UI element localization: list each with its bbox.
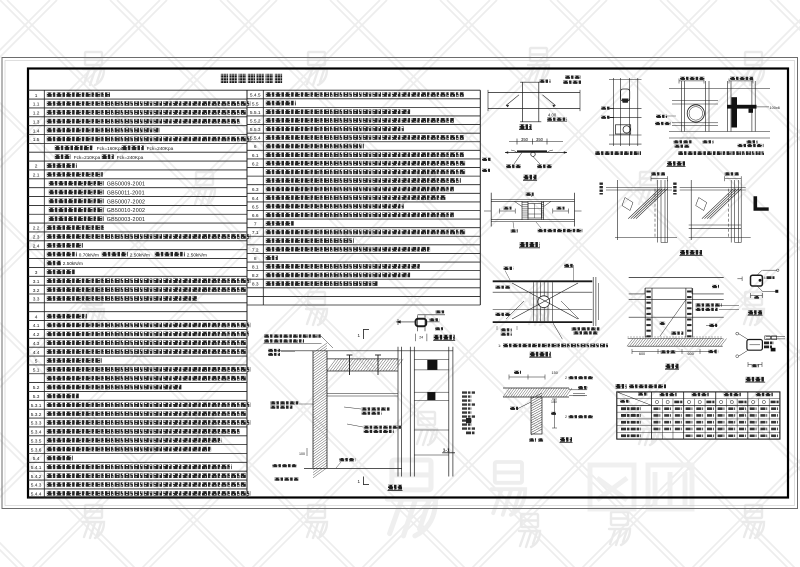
svg-text:1.3: 1.3 bbox=[33, 119, 40, 125]
svg-text:2.4: 2.4 bbox=[33, 244, 40, 250]
figure 5.3.4: slab step detail bbox=[482, 137, 567, 181]
svg-text:1: 1 bbox=[358, 479, 361, 484]
svg-text:6.4: 6.4 bbox=[252, 196, 259, 202]
figure 5.4.2: beam mid-joint elevation bbox=[484, 193, 583, 248]
svg-text:4.1: 4.1 bbox=[33, 323, 40, 329]
svg-text:5.2: 5.2 bbox=[33, 385, 40, 391]
svg-text:350: 350 bbox=[521, 137, 529, 142]
svg-text:6.6: 6.6 bbox=[252, 213, 259, 219]
svg-text:4: 4 bbox=[35, 314, 38, 320]
svg-text:2.3: 2.3 bbox=[33, 235, 40, 241]
figure: constructional column tie detail bbox=[736, 332, 785, 382]
svg-text:5.5.2: 5.5.2 bbox=[250, 119, 261, 125]
inner heavy border bbox=[28, 69, 788, 498]
figure 6.2: parapet & wall section elevation bbox=[264, 329, 454, 490]
svg-text:600: 600 bbox=[688, 352, 694, 356]
svg-text:5.4.4: 5.4.4 bbox=[31, 492, 42, 498]
svg-text:5.4.2: 5.4.2 bbox=[31, 474, 42, 480]
table 6.4: wall top beam reinforcement schedule bbox=[616, 385, 780, 439]
svg-text:3.3: 3.3 bbox=[33, 297, 40, 303]
svg-text:5.5: 5.5 bbox=[252, 101, 259, 107]
svg-text:5.5.4: 5.5.4 bbox=[250, 136, 261, 142]
svg-text:Fck=160Kpa: Fck=160Kpa bbox=[97, 146, 124, 151]
svg-text:3.1: 3.1 bbox=[33, 279, 40, 285]
svg-text:GB50003-2001: GB50003-2001 bbox=[107, 217, 145, 223]
svg-text:2.1: 2.1 bbox=[33, 173, 40, 179]
svg-text:1: 1 bbox=[358, 333, 361, 338]
svg-text:5.1: 5.1 bbox=[33, 368, 40, 374]
svg-text:8: 8 bbox=[254, 256, 257, 262]
svg-text:100x6: 100x6 bbox=[770, 106, 780, 110]
svg-text:1: 1 bbox=[35, 93, 38, 99]
svg-text:5.3.5: 5.3.5 bbox=[31, 438, 42, 444]
svg-text:4.4: 4.4 bbox=[33, 350, 40, 356]
svg-text:6.2: 6.2 bbox=[252, 161, 259, 167]
figure 6.4: basement wall section bbox=[627, 277, 739, 369]
svg-text:5.5.3: 5.5.3 bbox=[250, 127, 261, 133]
left specification table grid bbox=[28, 90, 247, 498]
svg-text:4.2: 4.2 bbox=[33, 332, 40, 338]
figure: tie bar detail (top) bbox=[396, 311, 455, 341]
svg-text:7.1: 7.1 bbox=[252, 230, 259, 236]
svg-text:5.3.2: 5.3.2 bbox=[31, 412, 42, 418]
svg-text:5.3: 5.3 bbox=[33, 394, 40, 400]
outer border frame bbox=[2, 58, 798, 509]
svg-text:5.3.6: 5.3.6 bbox=[31, 447, 42, 453]
svg-text:2: 2 bbox=[565, 376, 567, 380]
svg-text:4.00: 4.00 bbox=[548, 113, 557, 118]
figure 6.3: slab-wall tee detail bbox=[503, 371, 594, 442]
svg-text:1.2: 1.2 bbox=[33, 111, 40, 117]
svg-text:2.50kN/m: 2.50kN/m bbox=[187, 252, 207, 257]
figure 5.4.4: post-cast strip plan bbox=[493, 265, 608, 358]
figure: column tie section detail bbox=[737, 269, 779, 315]
svg-text:5.3.4: 5.3.4 bbox=[31, 430, 42, 436]
svg-text:350: 350 bbox=[536, 137, 544, 142]
svg-text:7: 7 bbox=[254, 222, 257, 228]
svg-text:6: 6 bbox=[254, 144, 257, 150]
figure: slab opening rebar plan bbox=[595, 78, 642, 154]
svg-text:600: 600 bbox=[639, 352, 645, 356]
sheet title 结构设计总说明 (glyph blocks) bbox=[221, 74, 229, 83]
svg-text:1.4: 1.4 bbox=[33, 128, 40, 134]
svg-text:6.3: 6.3 bbox=[252, 187, 259, 193]
svg-text:8.1: 8.1 bbox=[252, 265, 259, 271]
svg-text:GB50010-2002: GB50010-2002 bbox=[107, 208, 145, 214]
svg-text:GB50007-2002: GB50007-2002 bbox=[107, 199, 145, 205]
svg-text:5.3.3: 5.3.3 bbox=[31, 421, 42, 427]
svg-text:1.1: 1.1 bbox=[33, 102, 40, 108]
svg-text:7.2: 7.2 bbox=[252, 247, 259, 253]
svg-text:100: 100 bbox=[299, 452, 305, 456]
svg-text:GB50011-2001: GB50011-2001 bbox=[107, 190, 145, 196]
svg-text:150: 150 bbox=[552, 371, 558, 375]
svg-text:5: 5 bbox=[35, 359, 38, 365]
svg-text:4.3: 4.3 bbox=[33, 341, 40, 347]
svg-text:1.5: 1.5 bbox=[33, 137, 40, 143]
svg-text:150: 150 bbox=[551, 400, 557, 404]
svg-text:3.2: 3.2 bbox=[33, 288, 40, 294]
right table row texts bbox=[250, 93, 466, 288]
svg-text:0.70kN/m: 0.70kN/m bbox=[79, 252, 99, 257]
svg-text:Fck=240Kpa: Fck=240Kpa bbox=[147, 146, 174, 151]
svg-text:5.4.3: 5.4.3 bbox=[31, 483, 42, 489]
figure 5.4.5: sloped bar anchorage details (pair) bbox=[601, 173, 768, 255]
svg-text:5.3.1: 5.3.1 bbox=[31, 403, 42, 409]
svg-text:6.1: 6.1 bbox=[252, 153, 259, 159]
svg-text:5.4: 5.4 bbox=[33, 456, 40, 462]
svg-text:5.5.1: 5.5.1 bbox=[250, 110, 261, 116]
svg-text:24: 24 bbox=[419, 336, 423, 340]
svg-text:1:: 1: bbox=[498, 344, 501, 348]
svg-text:6.5: 6.5 bbox=[252, 204, 259, 210]
svg-text:3: 3 bbox=[35, 270, 38, 276]
svg-text:2: 2 bbox=[35, 164, 38, 170]
svg-text:Fck=210Kpa: Fck=210Kpa bbox=[74, 155, 101, 160]
figure 6.2: section 1-1 wall bbox=[410, 347, 475, 477]
svg-text:2.50kN/m: 2.50kN/m bbox=[130, 252, 150, 257]
svg-text:2.2: 2.2 bbox=[33, 226, 40, 232]
svg-text:5.4.5: 5.4.5 bbox=[250, 93, 261, 99]
right specification table grid bbox=[247, 90, 480, 305]
svg-text:2.50kN/m: 2.50kN/m bbox=[63, 261, 83, 266]
svg-text:5.4.1: 5.4.1 bbox=[31, 465, 42, 471]
svg-text:4: 4 bbox=[764, 276, 766, 280]
svg-text:8.2: 8.2 bbox=[252, 273, 259, 279]
svg-text:Fck=240Kpa: Fck=240Kpa bbox=[117, 155, 144, 160]
watermark yi glyphs bbox=[83, 52, 104, 85]
svg-text:2: 2 bbox=[565, 415, 567, 419]
left table row texts bbox=[31, 93, 251, 498]
figure 5.2: cross beam joint plan bbox=[488, 76, 581, 129]
svg-text:GB50009-2001: GB50009-2001 bbox=[107, 182, 145, 188]
svg-text:8.3: 8.3 bbox=[252, 282, 259, 288]
watermark big glyphs bottom right bbox=[387, 460, 435, 536]
figure 5.3.3: wall opening reinforcement bbox=[655, 78, 780, 167]
